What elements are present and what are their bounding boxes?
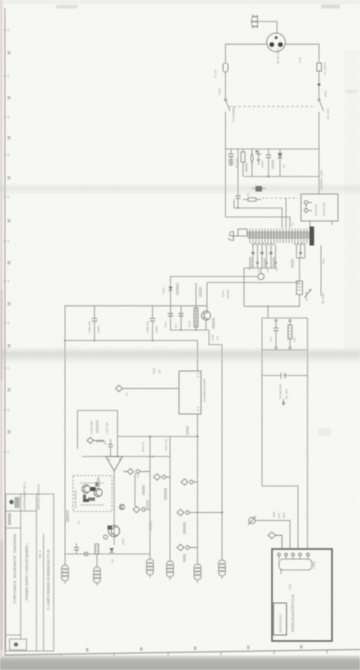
zone tick D — [4, 154, 9, 157]
secondary winding arcs right — [294, 243, 306, 245]
resistor R10 — [288, 320, 292, 350]
zone tick G — [4, 280, 9, 283]
left zone letter K — [8, 430, 11, 434]
bus H2 — [82, 456, 170, 458]
wire left rail corner to box — [262, 486, 298, 549]
smudge top right — [321, 5, 340, 9]
junction dots reg — [180, 329, 182, 331]
fold crease lower — [0, 347, 360, 364]
wire lamp to left section — [171, 276, 258, 278]
ground bus bottom — [65, 553, 150, 555]
wire reg out corner — [209, 330, 222, 345]
zone tick H — [4, 322, 9, 325]
bottom zone digit 5 — [300, 645, 303, 649]
capacitor C111 — [74, 543, 79, 554]
arrow down motor — [282, 399, 285, 405]
label smudge tap right — [291, 259, 294, 268]
label smudge loop inner extra — [96, 420, 99, 433]
lug terminal 6 — [219, 560, 226, 579]
connector pair P3 diamond — [133, 506, 150, 512]
diamond TP3 — [123, 469, 150, 475]
zone tick F — [4, 240, 9, 243]
wire connector right to neutral rail — [285, 44, 319, 62]
wire cap2 drop — [180, 306, 182, 330]
wire selector right leg — [331, 221, 333, 225]
test point diamond TP1 — [116, 385, 180, 391]
label smudge H1 — [186, 426, 189, 435]
box pin 3 — [292, 553, 295, 559]
diamond TP2 — [87, 437, 104, 443]
label smudge x152 mid — [146, 500, 149, 510]
transformer winding hatch — [250, 229, 307, 244]
label smudge left IC — [66, 510, 69, 522]
bus H1 — [118, 436, 198, 438]
label smudge regulator a — [176, 283, 179, 295]
bottom zone digit 4 — [247, 646, 250, 650]
switch gang dashed link — [229, 106, 316, 108]
small circle Q102 base — [104, 535, 108, 539]
wire resistor drop — [195, 283, 197, 330]
wire reg input drop — [170, 276, 172, 330]
zone tick E — [4, 196, 9, 199]
chassis ground — [229, 232, 239, 241]
box pin 2 — [285, 553, 288, 559]
left zone letter G — [8, 302, 11, 306]
secondary tap right 2 — [299, 245, 302, 258]
op-amp IC101 triangle — [106, 457, 123, 472]
connector pair P2 diamond — [181, 479, 198, 485]
bottom zone tick 3 — [167, 652, 169, 656]
left zone letter B — [8, 96, 11, 100]
secondary tap 2 — [256, 245, 259, 268]
resistor R2 row — [243, 198, 261, 201]
page bottom border line — [5, 650, 360, 656]
wire neutral down right — [318, 177, 320, 195]
secondary tap 5 — [269, 245, 273, 268]
junction dot filter — [268, 176, 270, 178]
pilot circle on bus — [84, 552, 88, 556]
label smudge filter b — [272, 160, 275, 169]
AC wall plug P1 — [251, 15, 258, 29]
zone tick L — [4, 451, 9, 454]
AC line connector J1 — [267, 33, 286, 52]
title block column line 2 — [36, 494, 38, 651]
scan left edge strip — [0, 0, 4, 670]
power switch S1 pole 1 — [225, 99, 231, 149]
speed adjuster box — [272, 549, 332, 641]
dashed relay link — [262, 197, 298, 199]
label smudge regulator b — [199, 287, 202, 297]
header text row2 — [8, 513, 11, 525]
wire reg bottom bus — [171, 329, 210, 331]
capacitor C2 — [266, 149, 271, 166]
diode D101 on drop — [169, 287, 173, 291]
jack symbol — [281, 373, 287, 379]
dropper cluster 2 cap — [150, 306, 155, 341]
wire neutral drop to filter bottom — [318, 149, 320, 177]
secondary tap 6 — [274, 245, 277, 268]
motor loop left rail — [261, 318, 263, 486]
box pin header outline — [279, 559, 312, 570]
capacitor C102 — [178, 314, 183, 317]
capacitor C101 — [168, 314, 173, 317]
left zone letter E — [8, 219, 11, 223]
wire x150 down to lug — [149, 437, 151, 560]
wire reg bus upper — [207, 282, 300, 284]
motor loop right rail — [307, 318, 309, 549]
zone tick B — [4, 75, 9, 78]
diode D103 — [110, 548, 114, 552]
transistor Q101 — [201, 311, 210, 330]
fold crease upper — [0, 183, 360, 196]
label smudge filter a — [245, 163, 248, 172]
wire x135 drop — [134, 473, 136, 506]
zone tick A — [4, 29, 9, 32]
REG block pin marks — [197, 374, 200, 411]
left bus A — [65, 305, 207, 307]
label smudge regulator c — [212, 318, 215, 329]
connector pair P4 diamond — [177, 509, 223, 515]
bottom zone tick 5 — [273, 650, 275, 654]
voltage selector box — [301, 194, 338, 221]
IC inner marks — [80, 483, 104, 505]
smudge top left — [56, 5, 78, 9]
IC inner dark marks — [91, 487, 96, 491]
title block column line 3 — [43, 534, 45, 651]
dropper cluster 1 cap — [92, 306, 97, 341]
secondary tap 3 — [260, 245, 264, 268]
left rail — [64, 306, 66, 554]
box pin 1 — [278, 553, 281, 559]
logo box bottom — [10, 639, 27, 650]
wire x170 down to lug — [169, 437, 171, 562]
smudge right mid — [346, 90, 357, 93]
trimmer VR1 arrow — [305, 290, 311, 298]
connector pair P1 diamond — [154, 474, 171, 480]
diode D1 — [278, 149, 283, 166]
wire reg right drop — [206, 283, 208, 312]
bottom zone digit 2 — [140, 647, 143, 651]
IC inner transistor Q1 — [82, 485, 90, 501]
wire x197 down to lug — [197, 437, 199, 565]
lug terminal 3 — [147, 559, 154, 578]
label P1 — [142, 485, 145, 495]
header text rows — [15, 497, 20, 508]
small transistor right of IC — [119, 504, 124, 509]
label P5 — [183, 554, 186, 562]
bottom zone tick 4 — [220, 651, 222, 655]
wire primary loop outer — [226, 217, 291, 228]
REG block box — [179, 371, 201, 414]
wire bus B to REG box — [197, 341, 199, 372]
power transistor Q102 — [108, 525, 120, 537]
label P1b — [164, 488, 167, 500]
left bus B — [65, 340, 198, 342]
resistor R101 — [194, 308, 198, 327]
label P4 — [183, 522, 186, 534]
opamp plus minus — [109, 459, 122, 461]
varistor ZNR — [251, 149, 261, 168]
left zone letter D — [8, 176, 11, 180]
diode D2 dark blob — [252, 186, 266, 192]
label smudge secondary a — [249, 257, 252, 268]
wire drop to motor loop — [267, 306, 269, 318]
wire line rail continues down — [225, 149, 227, 217]
selector pin 1 — [304, 201, 308, 205]
junction dots H1 — [149, 436, 151, 438]
opamp input cap — [96, 439, 113, 457]
trimmer VR1 body — [297, 281, 303, 295]
zone tick J — [4, 367, 9, 370]
label smudge secondary c — [273, 257, 276, 268]
transformer T1 core body — [248, 232, 312, 238]
bottom zone digit 3 — [194, 647, 197, 651]
wire plug to connector — [258, 22, 278, 34]
label P3 — [149, 521, 152, 531]
box pin 5 — [307, 553, 310, 559]
motor loop bottom — [262, 349, 308, 351]
terminal E ring — [248, 516, 290, 525]
wire REG out down — [197, 414, 199, 437]
logo dot top — [9, 500, 13, 504]
phono jack link — [262, 375, 308, 377]
capacitor C1 — [228, 149, 234, 166]
capacitor C3 row — [236, 149, 241, 203]
connector pair P5 diamond — [177, 544, 198, 550]
title block row line c — [6, 634, 21, 636]
lug terminal 5 — [194, 564, 201, 583]
secondary tap right 1 — [296, 245, 298, 258]
bottom zone tick 6 — [326, 650, 328, 654]
motor loop top — [262, 317, 308, 319]
wire VR down and left — [244, 295, 300, 307]
feedback loop right — [117, 411, 119, 457]
secondary tap 4 — [265, 245, 268, 268]
pilot lamp feed wire — [260, 268, 262, 273]
zone tick K — [4, 409, 9, 412]
bottom zone tick 1 — [60, 654, 62, 658]
smudge right lower — [318, 428, 331, 436]
bottom zone digit 1 — [86, 648, 89, 652]
junction dots H2 — [117, 456, 119, 458]
title block row line b — [6, 527, 21, 529]
far right winding wire — [320, 246, 322, 297]
selector pin 2 — [304, 209, 308, 213]
title block outline — [6, 494, 54, 651]
bottom zone tick 2 — [113, 653, 115, 657]
capacitor C10 — [273, 320, 278, 350]
junction dots bus B — [94, 340, 96, 342]
IC inner resistor — [88, 498, 95, 501]
page left border line — [4, 8, 6, 655]
wire mid rail x222 — [221, 345, 223, 560]
secondary winding arcs left — [251, 243, 275, 245]
IC dashed outline — [73, 476, 112, 512]
secondary tap right 3 — [304, 245, 306, 258]
lug terminal 2 — [94, 554, 101, 586]
wire connector left to line rail — [226, 44, 268, 62]
wire line filter top bus — [226, 148, 320, 150]
connector arrow diamond — [268, 532, 282, 549]
left zone letter J — [8, 388, 11, 392]
feedback loop top — [78, 410, 118, 412]
left zone letter A — [8, 51, 11, 55]
feedback loop left — [77, 411, 79, 450]
wire selector to transformer — [309, 221, 311, 228]
resistor R112 — [95, 544, 99, 554]
secondary join bus — [244, 267, 276, 269]
transformer core end plate — [310, 227, 315, 246]
left zone letter C — [8, 136, 11, 140]
label smudge under opamp — [97, 477, 100, 487]
lug terminal 1 — [62, 554, 69, 584]
wire primary loop inner — [234, 208, 282, 228]
secondary tap 1 — [251, 245, 255, 268]
box pin 4 — [299, 553, 302, 559]
junction dot primary — [237, 207, 239, 209]
wire ring to box — [289, 521, 291, 550]
left zone letter H — [8, 344, 11, 348]
fuse F1 — [223, 63, 228, 99]
IC inner transistor Q2 — [94, 482, 102, 497]
inner box motor pcb — [274, 603, 287, 635]
title block row line a — [6, 510, 37, 512]
opamp output wire — [113, 471, 115, 545]
bottom scan band — [0, 657, 360, 670]
pilot lamp PL1 — [258, 273, 264, 279]
selector wiper — [306, 203, 312, 211]
zone tick C — [4, 116, 9, 119]
transformer mount loop — [238, 229, 247, 236]
wire secondary return to regulator — [243, 268, 245, 306]
label smudge secondary b — [264, 258, 267, 268]
wire filter bottom bus — [243, 166, 280, 177]
lug terminal 4 — [167, 561, 174, 580]
thermal fuse TF1 — [317, 63, 322, 99]
right tap join — [297, 257, 305, 259]
left zone letter F — [8, 261, 11, 265]
junction dot — [267, 305, 269, 307]
power switch S1 pole 2 — [318, 99, 324, 149]
title block column line 1 — [20, 494, 22, 651]
resistor R1 — [241, 149, 245, 168]
wire right tap down — [299, 258, 301, 281]
wire primary stub — [234, 198, 286, 228]
